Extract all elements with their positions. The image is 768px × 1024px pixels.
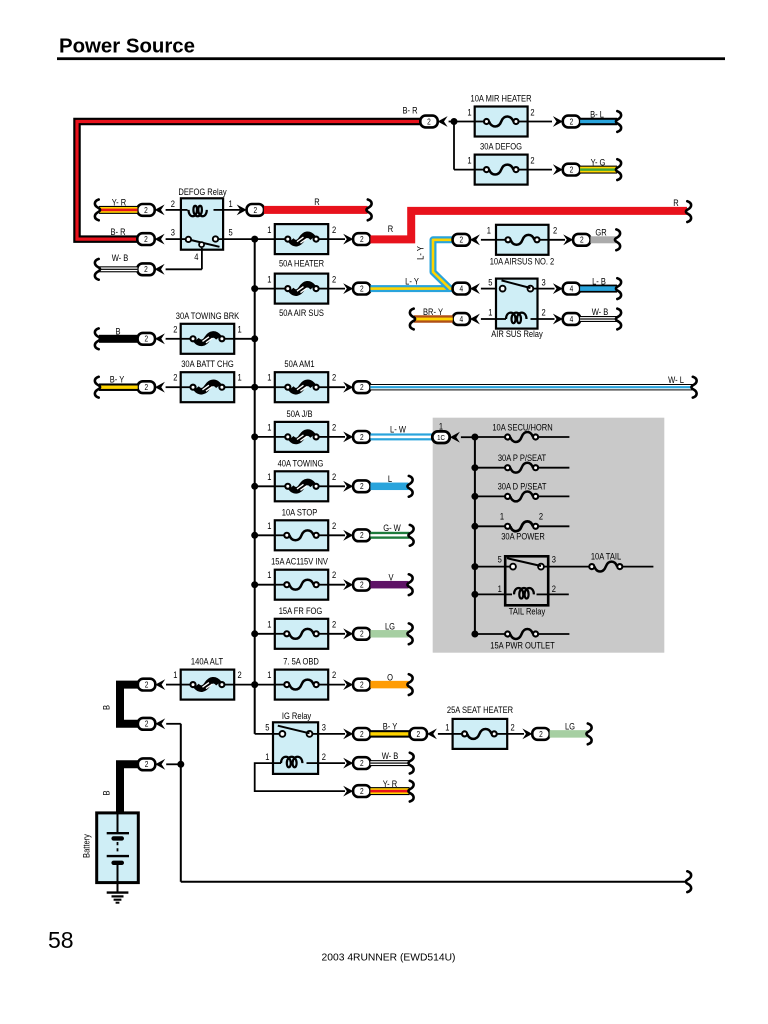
pigtail Y-R [95, 200, 100, 221]
arrow into connector [155, 382, 165, 393]
junction node [251, 335, 258, 342]
pin 2 [553, 225, 557, 236]
connector 2 (W-B) [353, 757, 370, 769]
connector 2 (B-Y) [353, 728, 370, 740]
pigtail GR [615, 229, 620, 250]
svg-text:2: 2 [173, 372, 177, 383]
pin 2 [530, 107, 534, 118]
svg-text:B- R: B- R [110, 226, 125, 237]
fuse 50A AM1 [275, 358, 328, 402]
svg-text:LG: LG [565, 721, 575, 732]
svg-text:2: 2 [332, 274, 336, 285]
svg-text:4: 4 [570, 284, 574, 294]
pin 2 [322, 751, 326, 762]
wire bus to fuse [255, 485, 275, 487]
svg-text:2: 2 [360, 680, 364, 690]
pin 2 [332, 569, 336, 580]
fuse 50A AIR SUS [275, 274, 328, 319]
wire to relay pin1 [481, 318, 496, 320]
svg-text:R: R [314, 196, 319, 207]
svg-text:2: 2 [145, 680, 149, 690]
wire bus to tail relay pin1 [475, 593, 505, 595]
svg-text:1: 1 [267, 569, 271, 580]
svg-text:LG: LG [385, 621, 395, 632]
svg-text:7. 5A OBD: 7. 5A OBD [283, 656, 319, 667]
svg-text:1: 1 [267, 422, 271, 433]
svg-text:15A AC115V INV: 15A AC115V INV [271, 556, 328, 567]
svg-text:2: 2 [553, 225, 557, 236]
pin 2 [332, 619, 336, 630]
svg-text:1: 1 [173, 669, 177, 680]
svg-text:30A BATT CHG: 30A BATT CHG [181, 358, 234, 369]
junction node [471, 631, 478, 638]
svg-text:1: 1 [488, 307, 492, 318]
svg-text:B: B [115, 326, 120, 337]
pigtail W-B [95, 259, 100, 280]
svg-text:DEFOG Relay: DEFOG Relay [178, 186, 227, 197]
svg-text:2: 2 [539, 729, 543, 739]
svg-text:1: 1 [238, 372, 242, 383]
svg-text:2: 2 [238, 669, 242, 680]
svg-text:W- B: W- B [112, 252, 129, 263]
arrow into connector [155, 234, 165, 245]
svg-text:1: 1 [439, 421, 443, 432]
wire pin3 out [318, 733, 345, 735]
wire bus to IG relay pin5 [255, 733, 273, 735]
svg-text:B- R: B- R [402, 105, 417, 116]
pigtail BR-Y [410, 309, 415, 330]
arrow out [343, 729, 353, 740]
junction node [471, 464, 478, 471]
svg-text:1: 1 [445, 722, 449, 733]
wire pin3 lead [166, 238, 181, 240]
wire pin2 stub [548, 593, 569, 595]
pin 1 [467, 107, 471, 118]
svg-text:2: 2 [530, 155, 534, 166]
junction node [251, 384, 258, 391]
pin 2 [552, 583, 556, 594]
connector 2 (L-Y to AIRSUS fuse) [453, 234, 480, 246]
svg-text:1: 1 [267, 669, 271, 680]
svg-text:30A DEFOG: 30A DEFOG [480, 141, 522, 152]
wire bus row [234, 684, 275, 686]
wire L-Y [370, 276, 452, 292]
svg-text:2: 2 [360, 580, 364, 590]
junction node [251, 483, 258, 490]
wire GR [590, 227, 616, 243]
fuse 140A ALT [181, 656, 235, 700]
pigtail G-W [408, 525, 413, 546]
wire out [328, 238, 345, 240]
svg-text:2: 2 [332, 372, 336, 383]
arrow out [343, 432, 353, 443]
wire LG [370, 621, 408, 638]
svg-text:2003 4RUNNER (EWD514U): 2003 4RUNNER (EWD514U) [322, 953, 456, 964]
junction node [451, 118, 458, 125]
svg-text:R: R [673, 197, 678, 208]
wire B (alternator loop) [101, 685, 138, 724]
svg-text:2: 2 [144, 234, 148, 244]
wire pin4 lead [166, 248, 202, 269]
wire bus to fuse [255, 633, 275, 635]
connector 2 (LG) [353, 628, 370, 640]
pin 5 [488, 277, 492, 288]
wire 1C to JB bus [461, 436, 475, 438]
svg-text:2: 2 [360, 629, 364, 639]
svg-text:10A SECU/HORN: 10A SECU/HORN [492, 422, 552, 433]
svg-text:2: 2 [459, 235, 463, 245]
svg-text:W- L: W- L [668, 374, 684, 385]
junction node [471, 563, 478, 570]
connector 2 (LG) [532, 728, 549, 740]
arrow out [343, 628, 353, 639]
pigtail bottom run [686, 871, 691, 892]
pin 1 [498, 583, 502, 594]
wire pin2 out [318, 762, 345, 764]
svg-text:2: 2 [360, 758, 364, 768]
arrow out [237, 205, 247, 216]
pin 2 [530, 155, 534, 166]
fuse 15A PWR OUTLET [475, 629, 570, 651]
arrow out [343, 234, 353, 245]
svg-text:B: B [101, 705, 112, 710]
svg-text:B- Y: B- Y [383, 721, 398, 732]
svg-text:1: 1 [267, 471, 271, 482]
wire B-Y [370, 721, 409, 738]
fuse 50A HEATER [275, 224, 328, 269]
connector 2 (R) [353, 233, 370, 245]
wire out [507, 733, 524, 735]
svg-text:1: 1 [267, 372, 271, 383]
svg-text:1C: 1C [437, 434, 445, 442]
wire to down bus [166, 723, 181, 725]
pin 1 [267, 274, 271, 285]
fuse 30A TOWING BRK [176, 310, 240, 354]
svg-text:2: 2 [332, 422, 336, 433]
pin 1 [229, 198, 233, 209]
svg-text:2: 2 [360, 482, 364, 492]
svg-text:2: 2 [360, 284, 364, 294]
svg-text:B: B [101, 790, 112, 795]
fuse 10A SECU/HORN [475, 422, 570, 442]
svg-text:L- W: L- W [390, 424, 406, 435]
wire bus to fuse [255, 288, 275, 290]
title Power Source [59, 35, 195, 57]
pin 1 of 1C [439, 421, 443, 432]
pin 1 [267, 520, 271, 531]
wire B [99, 326, 138, 343]
wire out left [166, 684, 181, 686]
svg-text:1: 1 [267, 520, 271, 531]
pin 2 [171, 198, 175, 209]
connector 2 (V) [353, 579, 370, 591]
junction node [471, 591, 478, 598]
svg-text:40A TOWING: 40A TOWING [278, 458, 324, 469]
pin 2 [332, 669, 336, 680]
junction block internal bus [474, 437, 476, 634]
svg-text:B- Y: B- Y [110, 374, 125, 385]
pin 3 [322, 722, 326, 733]
pin 1 [487, 225, 491, 236]
svg-text:R: R [388, 223, 393, 234]
connector 2 (B-Y) [138, 381, 155, 393]
relay TAIL Relay [505, 556, 548, 616]
pin 3 [171, 227, 175, 238]
svg-text:Power Source: Power Source [59, 35, 195, 57]
connector 2 (B-Y right) [410, 728, 437, 740]
svg-text:2: 2 [360, 234, 364, 244]
connector 2 (alternator B lower) [138, 718, 165, 730]
pin 1 [238, 372, 242, 383]
svg-text:50A AM1: 50A AM1 [284, 358, 314, 369]
svg-text:2: 2 [511, 722, 515, 733]
svg-text:58: 58 [48, 927, 74, 953]
fuse 40A TOWING [275, 458, 328, 502]
connector 2 (B-R) [137, 233, 154, 245]
pin 2 [511, 722, 515, 733]
wire pin5 to bus [223, 238, 275, 240]
ground [107, 893, 129, 903]
arrow into connector [155, 679, 165, 690]
pin 5 [229, 227, 233, 238]
svg-text:3: 3 [322, 722, 326, 733]
svg-text:2: 2 [322, 751, 326, 762]
fuse 7.5A OBD [275, 656, 328, 700]
wire pin1 lead [223, 209, 240, 211]
wire out left [166, 338, 181, 340]
title underline [57, 57, 725, 60]
svg-text:2: 2 [570, 117, 574, 127]
svg-text:2: 2 [416, 729, 420, 739]
svg-text:AIR SUS Relay: AIR SUS Relay [491, 328, 543, 339]
pin 2 [173, 372, 177, 383]
pigtail B-Y [95, 377, 100, 398]
pin 2 [332, 471, 336, 482]
pin 1 [267, 471, 271, 482]
wire bus row [234, 386, 275, 388]
wire BR-Y [414, 306, 453, 323]
wire L-W [370, 424, 432, 440]
svg-text:3: 3 [171, 227, 175, 238]
svg-text:L- B: L- B [592, 276, 606, 287]
wire Y-G [580, 157, 617, 174]
svg-text:2: 2 [171, 198, 175, 209]
pin 2 [238, 669, 242, 680]
wire W-B [370, 750, 409, 766]
wire L-B [580, 276, 617, 293]
svg-text:2: 2 [360, 729, 364, 739]
page number 58 [48, 927, 74, 953]
connector 1C [432, 431, 460, 443]
pigtail O [407, 674, 412, 695]
svg-text:50A J/B: 50A J/B [287, 408, 313, 419]
wire to fuse pin1 [481, 239, 496, 241]
wire L [370, 473, 408, 490]
footer 2003 4RUNNER (EWD514U) [322, 953, 456, 964]
svg-text:2: 2 [332, 569, 336, 580]
svg-text:5: 5 [265, 722, 269, 733]
svg-text:2: 2 [144, 265, 148, 275]
pin 3 [552, 554, 556, 565]
junction node [251, 581, 258, 588]
pin 1 [173, 669, 177, 680]
svg-text:TAIL Relay: TAIL Relay [509, 606, 546, 617]
svg-text:B- L: B- L [590, 109, 604, 120]
arrow out [343, 758, 353, 769]
pin 1 [267, 372, 271, 383]
relay DEFOG Relay [178, 186, 227, 249]
wire W-B [99, 252, 137, 272]
relay IG Relay [273, 710, 318, 773]
down bus (to rear) [180, 724, 182, 882]
fuse 10A AIRSUS NO. 2 [490, 225, 555, 267]
svg-text:30A D P/SEAT: 30A D P/SEAT [498, 481, 547, 492]
svg-text:10A STOP: 10A STOP [282, 507, 318, 518]
wire W-B [580, 306, 617, 322]
fuse 15A AC115V INV [271, 556, 328, 600]
connector 2 (W-B) [137, 263, 154, 275]
wire out [328, 633, 345, 635]
wire long bottom run [181, 881, 687, 883]
wire to seat heater fuse [438, 733, 453, 735]
arrow out [553, 116, 563, 127]
svg-text:2: 2 [360, 531, 364, 541]
svg-text:140A ALT: 140A ALT [191, 656, 223, 667]
connector 2 (W-L) [353, 381, 370, 393]
svg-text:2: 2 [144, 205, 148, 215]
svg-text:L- Y: L- Y [405, 276, 419, 287]
wire bus to fuse [255, 436, 275, 438]
svg-text:4: 4 [570, 314, 574, 324]
wire W-L [370, 374, 692, 390]
svg-text:2: 2 [542, 307, 546, 318]
wire out [328, 684, 345, 686]
svg-text:Y- R: Y- R [383, 778, 397, 789]
pigtail V [407, 574, 412, 595]
pigtail W-B [408, 753, 413, 774]
svg-text:30A TOWING BRK: 30A TOWING BRK [176, 310, 240, 321]
connector 2 (L) [353, 480, 370, 492]
svg-text:2: 2 [552, 583, 556, 594]
wire pin3 to 10A TAIL [548, 566, 589, 568]
svg-text:W- B: W- B [592, 306, 609, 317]
fuse 15A FR FOG [275, 605, 328, 649]
pin 2 [332, 422, 336, 433]
pin 2 [332, 520, 336, 531]
wire Y-R [99, 197, 137, 214]
wire out [328, 485, 345, 487]
arrow into connector [155, 264, 165, 275]
pin 2 [332, 274, 336, 285]
svg-text:4: 4 [459, 284, 463, 294]
pin 2 [173, 324, 177, 335]
svg-text:2: 2 [253, 205, 257, 215]
pin 1 [267, 224, 271, 235]
wire O [370, 672, 408, 689]
arrow out [553, 164, 563, 175]
wire bus to fuse [234, 338, 255, 340]
fuse 30A DEFOG [475, 141, 528, 185]
connector 2 (L-Y) [353, 283, 370, 295]
wire B-Y [99, 374, 138, 391]
svg-text:2: 2 [530, 107, 534, 118]
junction node [177, 761, 184, 768]
svg-text:2: 2 [570, 165, 574, 175]
pigtail LG [407, 623, 412, 644]
junction node [251, 630, 258, 637]
svg-text:G- W: G- W [383, 522, 401, 533]
pigtail W-B [616, 309, 621, 330]
svg-text:2: 2 [173, 324, 177, 335]
pin 1 [267, 619, 271, 630]
connector 2 (Y-R) [137, 204, 154, 216]
connector 2 (L-W) [353, 431, 370, 443]
arrow out [563, 234, 573, 245]
wire bus to fuse [255, 534, 275, 536]
svg-text:L: L [388, 473, 392, 484]
svg-text:2: 2 [332, 619, 336, 630]
arrow out [343, 530, 353, 541]
pigtail LG [586, 724, 591, 745]
pin 4 [194, 251, 198, 262]
pin 1 [488, 307, 492, 318]
arrow out [343, 579, 353, 590]
pigtail L-B [616, 278, 621, 299]
arrow out [343, 382, 353, 393]
main power bus [254, 239, 256, 734]
pin 1 [267, 569, 271, 580]
svg-text:1: 1 [267, 224, 271, 235]
wire B (battery positive) [101, 764, 138, 813]
pin 3 [542, 277, 546, 288]
pin 2 [332, 372, 336, 383]
svg-text:4: 4 [459, 314, 463, 324]
svg-text:3: 3 [552, 554, 556, 565]
pin 5 [498, 554, 502, 565]
svg-text:2: 2 [332, 669, 336, 680]
svg-text:5: 5 [229, 227, 233, 238]
wire B-L [580, 109, 617, 126]
svg-text:2: 2 [360, 382, 364, 392]
fuse 10A MIR HEATER [470, 93, 531, 137]
wire Y-R [370, 778, 409, 795]
junction node [471, 493, 478, 500]
svg-text:2: 2 [580, 235, 584, 245]
pigtail B-L [616, 111, 621, 132]
svg-text:2: 2 [144, 382, 148, 392]
connector 4 (L-Y to AIR SUS relay) [453, 283, 480, 295]
wire battery junction [166, 763, 181, 765]
pin 2 [332, 224, 336, 235]
pin 2 [542, 307, 546, 318]
connector 2 (alternator B) [138, 679, 155, 691]
svg-text:25A SEAT HEATER: 25A SEAT HEATER [447, 704, 513, 715]
fuse 10A STOP [275, 507, 328, 551]
wire pin1 elbow [255, 763, 345, 791]
fuse 30A P P/SEAT [475, 452, 570, 472]
svg-text:O: O [387, 672, 393, 683]
pin 1 [267, 422, 271, 433]
arrow out [522, 729, 532, 740]
svg-text:1: 1 [467, 107, 471, 118]
wire out [328, 288, 345, 290]
pin 1 [265, 751, 269, 762]
svg-text:5: 5 [498, 554, 502, 565]
svg-text:1: 1 [265, 751, 269, 762]
wire MIR HEATER out [528, 121, 552, 123]
connector 2 (R) [247, 204, 264, 216]
pigtail Y-R [408, 781, 413, 802]
